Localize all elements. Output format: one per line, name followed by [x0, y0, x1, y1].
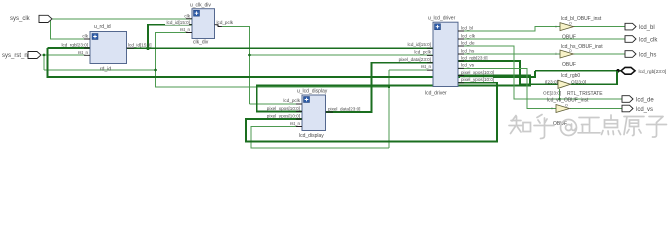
- wire lcd_hs net: [458, 53, 625, 55]
- wire lcd_clk net: [458, 38, 625, 40]
- svg-text:OE[23:0]: OE[23:0]: [543, 90, 561, 95]
- svg-text:OBUF: OBUF: [562, 35, 576, 41]
- wire lcd_pclk to lcd_display.lcd_pclk: [250, 103, 303, 105]
- svg-text:lcd_rgb[23:0]: lcd_rgb[23:0]: [461, 55, 488, 60]
- buffer OBUF lcd_bl_OBUF_inst: [556, 16, 602, 41]
- svg-text:rst_n: rst_n: [78, 50, 89, 55]
- svg-text:lcd_de: lcd_de: [461, 40, 475, 45]
- svg-text:lcd_vs_OBUF_inst: lcd_vs_OBUF_inst: [547, 98, 589, 104]
- buffer OBUF lcd_vs_OBUF_inst: [547, 98, 589, 128]
- output port lcd_vs: [622, 105, 653, 113]
- svg-text:lcd_clk: lcd_clk: [639, 37, 658, 43]
- svg-text:lcd_pclk: lcd_pclk: [217, 20, 234, 25]
- svg-text:u_lcd_driver: u_lcd_driver: [428, 16, 456, 22]
- module lcd_display U:u_lcd_display: [266, 89, 360, 140]
- watermark char dian: [602, 115, 621, 135]
- wire tristate output: [571, 71, 618, 85]
- svg-text:lcd_bl: lcd_bl: [461, 25, 473, 30]
- svg-text:lcd_vs: lcd_vs: [636, 107, 653, 113]
- wire lcd_vs net: [458, 68, 622, 108]
- svg-text:lcd_bl_OBUF_inst: lcd_bl_OBUF_inst: [561, 16, 602, 22]
- wire lcd_pclk from clk_div: [222, 27, 250, 104]
- svg-text:clk: clk: [82, 34, 88, 39]
- wire tristate OE: [558, 89, 561, 100]
- wire lcd_rgb bus into rd_id.lcd_rgb: [48, 47, 91, 49]
- junction rst_n at riser: [388, 86, 390, 88]
- module clk_div U:u_clk_div: [165, 3, 234, 46]
- svg-text:pixel_ypos[10:0]: pixel_ypos[10:0]: [267, 113, 300, 118]
- svg-text:u_rd_id: u_rd_id: [94, 24, 111, 30]
- module rd_id U:u_rd_id: [61, 24, 151, 73]
- svg-text:lcd_vs: lcd_vs: [461, 63, 475, 68]
- svg-text:O: O: [569, 49, 572, 53]
- wire lcd_de net: [458, 46, 622, 99]
- output port lcd_hs: [625, 51, 656, 59]
- svg-text:sys_rst_n: sys_rst_n: [2, 53, 28, 59]
- wire sys_clk to clk_div.clk: [49, 18, 192, 20]
- wire lcd_bl net: [458, 27, 625, 31]
- svg-text:lcd_rgb0: lcd_rgb0: [561, 73, 580, 79]
- wire lcd_rgb bus feedback loop: [48, 48, 536, 77]
- wire rst_n lower run: [156, 70, 390, 87]
- output port lcd_clk: [625, 36, 658, 44]
- svg-text:u_clk_div: u_clk_div: [190, 3, 211, 9]
- wire pixel_xpos[10:0] bus: [257, 76, 530, 112]
- junction rst_n mid: [154, 69, 157, 72]
- svg-text:I: I: [556, 52, 557, 56]
- svg-text:lcd_rgb[23:0]: lcd_rgb[23:0]: [639, 69, 667, 75]
- output port lcd_de: [622, 96, 654, 104]
- wire lcd_pclk to lcd_driver.lcd_pclk: [250, 54, 434, 56]
- watermark char hu: [534, 115, 554, 139]
- watermark char yuan: [624, 117, 644, 136]
- svg-text:rst_n: rst_n: [180, 27, 191, 32]
- svg-text:lcd_de: lcd_de: [636, 97, 654, 103]
- wire rst_n riser: [388, 70, 390, 148]
- svg-text:lcd_hs: lcd_hs: [639, 52, 656, 58]
- svg-text:rd_id: rd_id: [100, 67, 111, 73]
- inout port lcd_rgb[23:0]: [621, 67, 666, 74]
- svg-text:O: O: [565, 103, 568, 107]
- watermark char zheng: [578, 118, 600, 133]
- input port sys_clk: [10, 15, 52, 22]
- svg-text:I: I: [556, 25, 557, 29]
- wire pixel_ypos[10:0] bus: [246, 83, 497, 142]
- watermark at-sign: [561, 120, 577, 136]
- svg-text:rst_n: rst_n: [421, 64, 432, 69]
- wire rst_n drop: [43, 55, 45, 70]
- junction sys_clk: [49, 18, 52, 21]
- wire lcd_rgb bus to port: [535, 70, 626, 72]
- svg-text:lcd_id[15:0]: lcd_id[15:0]: [167, 20, 191, 25]
- svg-text:I: I: [552, 107, 553, 111]
- svg-text:lcd_display: lcd_display: [299, 133, 324, 139]
- junction rst_n at port: [43, 54, 46, 57]
- svg-text:lcd_bl: lcd_bl: [639, 25, 655, 31]
- svg-text:pixel_xpos[10:0]: pixel_xpos[10:0]: [267, 106, 300, 111]
- wire rst_n to lcd_display.rst_n: [251, 127, 389, 149]
- buffer OBUF lcd_hs_OBUF_inst: [556, 44, 604, 68]
- input port sys_rst_n: [2, 52, 41, 60]
- wire pixel_data[23:0] bus: [326, 63, 434, 112]
- svg-text:pixel_ypos[10:0]: pixel_ypos[10:0]: [461, 77, 494, 82]
- svg-text:u_lcd_display: u_lcd_display: [297, 89, 328, 95]
- svg-text:pixel_data[23:0]: pixel_data[23:0]: [399, 57, 431, 62]
- junction lcd_rgb bus: [616, 69, 620, 73]
- module lcd_driver U:u_lcd_driver: [392, 16, 494, 97]
- svg-text:lcd_driver: lcd_driver: [425, 91, 447, 97]
- junction lcd_pclk: [248, 54, 251, 57]
- wire lcd_id bus rd_id to lcd_driver: [127, 47, 434, 49]
- wire sys_clk branch to rd_id.clk: [51, 19, 91, 39]
- svg-text:RTL_TRISTATE: RTL_TRISTATE: [567, 91, 603, 97]
- svg-text:lcd_pclk: lcd_pclk: [283, 98, 300, 103]
- svg-text:lcd_id[15:0]: lcd_id[15:0]: [408, 42, 432, 47]
- svg-text:lcd_id[15:0]: lcd_id[15:0]: [128, 43, 152, 48]
- svg-text:lcd_clk: lcd_clk: [461, 33, 476, 38]
- tristate buffer lcd_rgb0 RTL_TRISTATE: [543, 73, 603, 97]
- svg-text:O: O: [569, 22, 572, 26]
- svg-text:pixel_xpos[10:0]: pixel_xpos[10:0]: [461, 70, 494, 75]
- svg-text:lcd_hs_OBUF_inst: lcd_hs_OBUF_inst: [561, 44, 603, 50]
- wire rst_n to clk_div.rst_n: [156, 33, 193, 71]
- svg-text:pixel_data[23:0]: pixel_data[23:0]: [328, 106, 360, 111]
- watermark char zhi1: [509, 116, 531, 134]
- wire lcd_id bus branch to clk_div: [148, 25, 192, 49]
- svg-text:I[23:0]: I[23:0]: [545, 79, 558, 84]
- svg-text:clk: clk: [184, 13, 190, 18]
- svg-text:rst_n: rst_n: [290, 121, 301, 126]
- watermark zhihu @zhengdianyuanzi: [509, 115, 667, 139]
- wire rst_n horizontal run: [44, 69, 156, 71]
- svg-text:OBUF: OBUF: [562, 62, 576, 68]
- wire lcd_rgb to tristate input: [458, 61, 558, 84]
- wire rst_n to lcd_driver.rst_n: [389, 69, 433, 71]
- svg-text:O[23:0]: O[23:0]: [571, 79, 586, 84]
- svg-text:lcd_hs: lcd_hs: [461, 48, 475, 53]
- svg-text:sys_clk: sys_clk: [10, 16, 31, 22]
- svg-text:lcd_pclk: lcd_pclk: [414, 49, 431, 54]
- watermark char zi: [647, 117, 667, 138]
- junction lcd_id bus: [146, 47, 149, 50]
- svg-text:lcd_rgb[23:0]: lcd_rgb[23:0]: [61, 43, 88, 48]
- wire sys_rst_n to rd_id.rst_n: [42, 54, 84, 56]
- output port lcd_bl: [625, 23, 655, 31]
- svg-text:clk_div: clk_div: [193, 40, 209, 46]
